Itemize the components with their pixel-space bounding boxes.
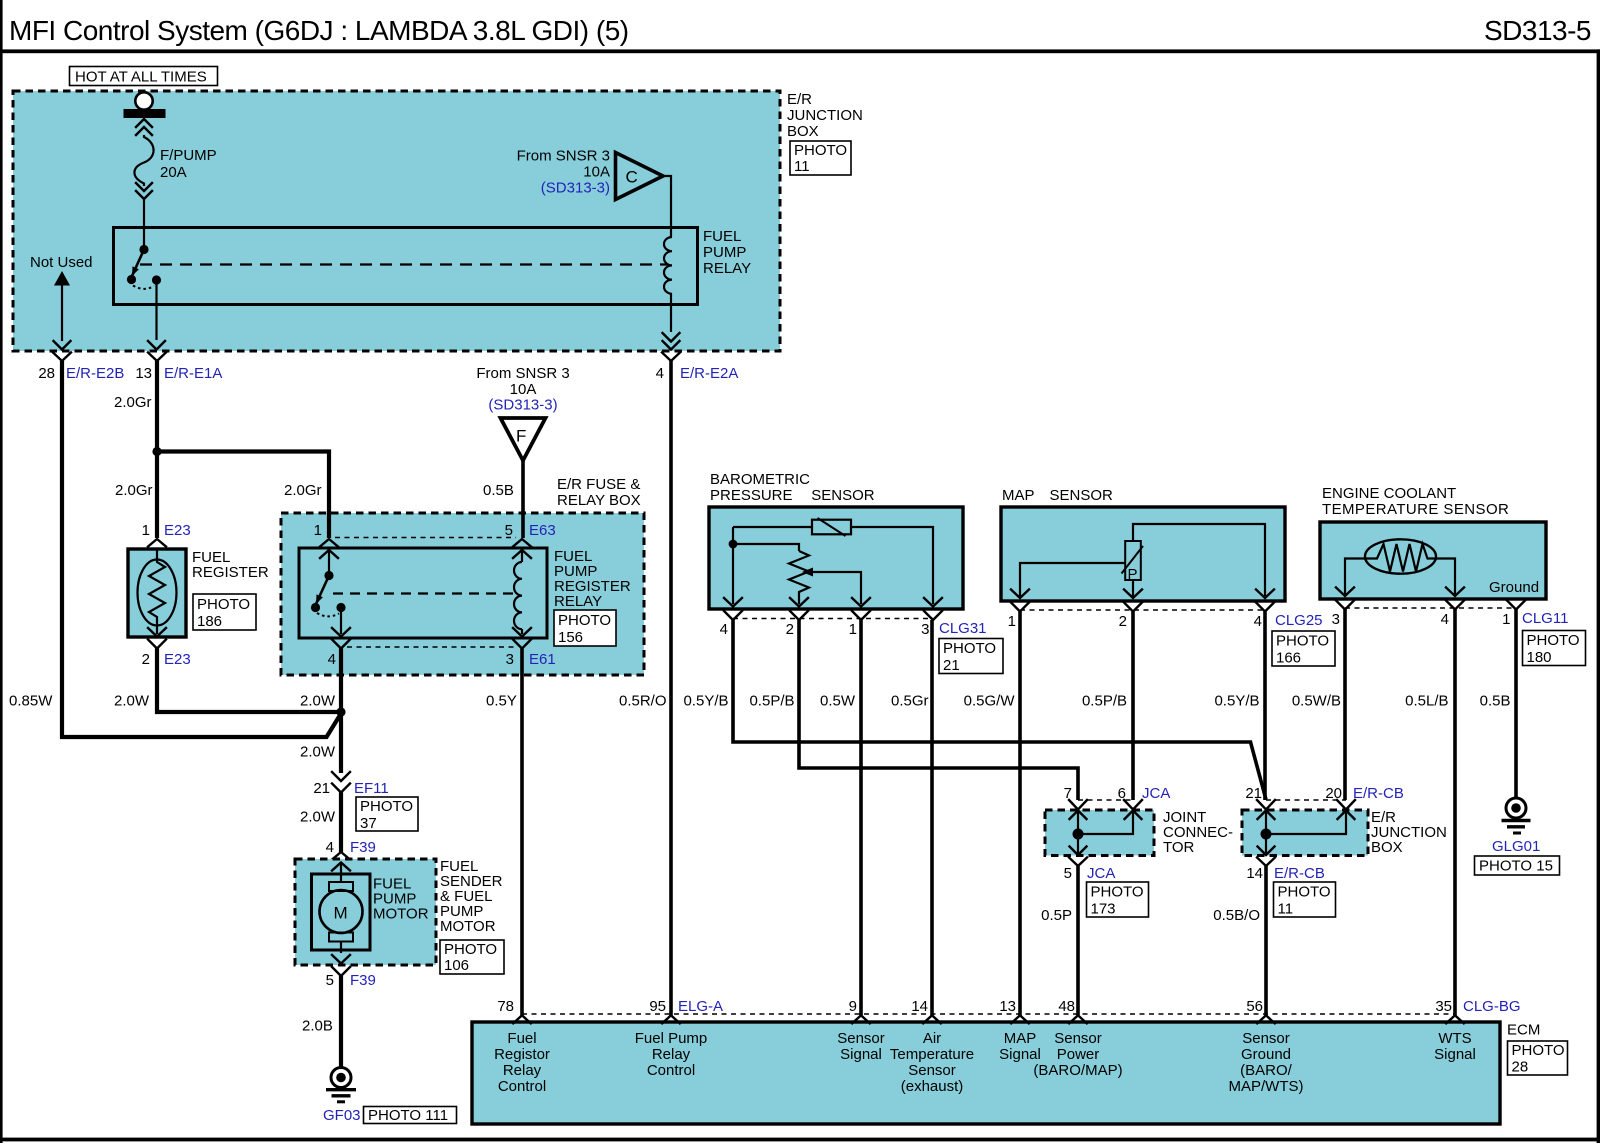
wire stubs into fuse box xyxy=(327,511,331,538)
svg-text:0.5Gr: 0.5Gr xyxy=(891,693,929,710)
svg-text:14: 14 xyxy=(911,998,928,1015)
svg-text:PHOTO 111: PHOTO 111 xyxy=(368,1107,448,1124)
svg-text:ENGINE COOLANT: ENGINE COOLANT xyxy=(1322,485,1456,502)
svg-text:20A: 20A xyxy=(160,164,187,181)
svg-text:7: 7 xyxy=(1064,785,1072,802)
svg-text:4: 4 xyxy=(656,365,664,382)
wire 0.5B/O E/R-CB 14 to ECM 56 xyxy=(1264,866,1268,1015)
svg-text:JCA: JCA xyxy=(1087,865,1115,882)
svg-text:14: 14 xyxy=(1246,865,1263,882)
svg-text:(SD313-3): (SD313-3) xyxy=(541,180,610,197)
svg-text:28: 28 xyxy=(38,365,55,382)
svg-text:21: 21 xyxy=(313,780,330,797)
wire 2.0Gr from pin 13 down with branch xyxy=(155,361,159,538)
svg-text:2.0Gr: 2.0Gr xyxy=(114,394,152,411)
svg-text:3: 3 xyxy=(921,621,929,638)
svg-text:E/R: E/R xyxy=(787,91,812,108)
pin dashed line E61 xyxy=(347,646,516,648)
svg-text:1: 1 xyxy=(142,522,150,539)
svg-text:3: 3 xyxy=(1332,611,1340,628)
svg-text:Temperature: Temperature xyxy=(890,1046,974,1063)
svg-text:Air: Air xyxy=(923,1030,941,1047)
svg-text:13: 13 xyxy=(135,365,152,382)
svg-text:PUMP: PUMP xyxy=(703,244,746,261)
svg-text:Ground: Ground xyxy=(1241,1046,1291,1063)
svg-text:0.5B: 0.5B xyxy=(483,482,514,499)
svg-text:E/R-CB: E/R-CB xyxy=(1353,785,1404,802)
svg-text:Ground: Ground xyxy=(1489,579,1539,596)
svg-text:PHOTO: PHOTO xyxy=(558,612,611,629)
svg-text:PHOTO: PHOTO xyxy=(794,142,847,159)
E/R-CB pin 14 connector xyxy=(1246,858,1335,918)
svg-text:13: 13 xyxy=(999,998,1016,1015)
svg-text:FUEL: FUEL xyxy=(703,228,741,245)
pin 5 E63 connector xyxy=(505,522,556,558)
svg-text:Sensor: Sensor xyxy=(1242,1030,1290,1047)
svg-text:11: 11 xyxy=(794,158,810,175)
connector pin 13 E/R-E1A xyxy=(135,353,222,383)
wire 0.5W baro pin 1 to ECM 9 xyxy=(859,620,863,1015)
svg-text:1: 1 xyxy=(849,621,857,638)
svg-text:1: 1 xyxy=(314,522,322,539)
wire 2.0W fuel register to junction xyxy=(157,649,341,713)
svg-text:From SNSR 3: From SNSR 3 xyxy=(517,148,610,165)
MAP internal circuit xyxy=(1011,524,1274,598)
svg-text:CLG11: CLG11 xyxy=(1522,610,1568,627)
svg-text:78: 78 xyxy=(497,998,514,1015)
wire 0.85W from pin 28 to junction xyxy=(62,361,341,737)
svg-text:56: 56 xyxy=(1246,998,1263,1015)
svg-text:37: 37 xyxy=(360,815,377,832)
svg-text:4: 4 xyxy=(720,621,728,638)
svg-text:E63: E63 xyxy=(529,522,556,539)
svg-text:Relay: Relay xyxy=(652,1046,691,1063)
svg-text:E/R-CB: E/R-CB xyxy=(1274,865,1325,882)
triangle C from SNSR 3 xyxy=(517,148,663,200)
svg-text:95: 95 xyxy=(649,998,666,1015)
svg-text:10A: 10A xyxy=(510,381,537,398)
pin 3 E61 connector xyxy=(506,640,556,669)
svg-text:CLG31: CLG31 xyxy=(939,620,987,637)
ECM pin 78 xyxy=(494,998,550,1095)
svg-text:CLG25: CLG25 xyxy=(1275,612,1323,629)
svg-text:5: 5 xyxy=(505,522,513,539)
svg-text:E23: E23 xyxy=(164,522,191,539)
svg-text:PHOTO: PHOTO xyxy=(1091,884,1144,901)
svg-text:0.5P/B: 0.5P/B xyxy=(1082,693,1127,710)
svg-text:21: 21 xyxy=(1245,785,1262,802)
svg-text:0.5R/O: 0.5R/O xyxy=(619,693,667,710)
wire 0.5B ECT pin 1 to GLG01 xyxy=(1514,610,1518,798)
fuel pump motor M1 xyxy=(312,863,429,964)
From SNSR 3 triangle F xyxy=(476,365,569,461)
svg-text:E/R-E2B: E/R-E2B xyxy=(66,365,124,382)
svg-text:Fuel Pump: Fuel Pump xyxy=(635,1030,708,1047)
ECM label xyxy=(1507,1022,1568,1076)
svg-text:48: 48 xyxy=(1058,998,1075,1015)
svg-text:5: 5 xyxy=(326,972,334,989)
svg-text:156: 156 xyxy=(558,629,583,646)
svg-text:PHOTO: PHOTO xyxy=(444,941,497,958)
svg-text:PHOTO 15: PHOTO 15 xyxy=(1479,858,1553,875)
wire 0.5L/B ECT pin 4 to ECM 35 xyxy=(1453,610,1457,1016)
svg-text:1: 1 xyxy=(1502,611,1510,628)
svg-text:PHOTO: PHOTO xyxy=(1278,884,1331,901)
svg-text:GF03: GF03 xyxy=(323,1107,361,1124)
ECM pin 14 xyxy=(890,998,974,1095)
svg-text:(exhaust): (exhaust) xyxy=(901,1078,964,1095)
svg-text:M: M xyxy=(334,904,348,923)
svg-text:0.5Y: 0.5Y xyxy=(486,693,517,710)
svg-text:E/R-E1A: E/R-E1A xyxy=(164,365,222,382)
wire 0.5G/W MAP pin 1 to ECM 13 xyxy=(1018,612,1022,1016)
svg-text:10A: 10A xyxy=(583,164,610,181)
ECM pin 48 xyxy=(1033,998,1122,1079)
svg-text:0.5Y/B: 0.5Y/B xyxy=(1214,693,1259,710)
svg-text:CLG-BG: CLG-BG xyxy=(1463,998,1521,1015)
svg-text:PHOTO: PHOTO xyxy=(1527,632,1580,649)
svg-text:2: 2 xyxy=(786,621,794,638)
baro connector CLG31 xyxy=(720,611,1003,674)
baro internal circuit xyxy=(724,518,942,607)
wire 0.5Y/B MAP pin 4 to E/R-CB 21 xyxy=(1263,612,1267,801)
svg-text:MAP: MAP xyxy=(1004,1030,1037,1047)
ground GF03 xyxy=(323,1068,457,1125)
svg-text:E/R-E2A: E/R-E2A xyxy=(680,365,738,382)
svg-text:9: 9 xyxy=(849,998,857,1015)
svg-text:BOX: BOX xyxy=(787,123,819,140)
E/R fuse & relay box xyxy=(281,476,644,675)
svg-text:F: F xyxy=(516,427,526,446)
svg-text:TEMPERATURE SENSOR: TEMPERATURE SENSOR xyxy=(1322,501,1509,518)
connector pin 4 F39 xyxy=(326,839,376,860)
svg-text:0.5Y/B: 0.5Y/B xyxy=(683,693,728,710)
svg-text:Sensor: Sensor xyxy=(837,1030,885,1047)
svg-text:11: 11 xyxy=(1278,901,1294,918)
svg-text:RELAY: RELAY xyxy=(554,593,602,610)
svg-text:Power: Power xyxy=(1057,1046,1100,1063)
svg-text:20: 20 xyxy=(1325,785,1342,802)
connector pin 4 E/R-E2A xyxy=(656,353,739,383)
pin 1 E63 connector xyxy=(314,522,338,558)
svg-text:MAP/WTS): MAP/WTS) xyxy=(1229,1078,1304,1095)
svg-text:TOR: TOR xyxy=(1163,839,1195,856)
svg-text:Sensor: Sensor xyxy=(908,1062,956,1079)
svg-text:(BARO/: (BARO/ xyxy=(1240,1062,1293,1079)
svg-text:MFI Control System (G6DJ : LAM: MFI Control System (G6DJ : LAMBDA 3.8L G… xyxy=(9,15,629,46)
svg-text:BAROMETRIC: BAROMETRIC xyxy=(710,471,810,488)
wire triangle C to relay coil xyxy=(663,176,671,237)
svg-text:SD313-5: SD313-5 xyxy=(1484,15,1591,46)
svg-text:PHOTO: PHOTO xyxy=(1276,633,1329,650)
connector EF11 pin 21 xyxy=(313,772,418,832)
JCA pin 5 connector xyxy=(1064,858,1149,918)
pin dashed line E63 xyxy=(335,537,516,539)
svg-text:2.0W: 2.0W xyxy=(300,744,336,761)
svg-text:PHOTO: PHOTO xyxy=(1512,1042,1565,1059)
svg-text:Relay: Relay xyxy=(503,1062,542,1079)
svg-text:2.0Gr: 2.0Gr xyxy=(284,482,322,499)
svg-text:(BARO/MAP): (BARO/MAP) xyxy=(1033,1062,1122,1079)
svg-text:173: 173 xyxy=(1091,901,1116,918)
svg-text:MAP SENSOR: MAP SENSOR xyxy=(1002,487,1113,504)
HOT AT ALL TIMES label xyxy=(70,67,218,86)
fuel pump relay U1 xyxy=(114,228,752,305)
svg-text:2: 2 xyxy=(1119,613,1127,630)
svg-text:28: 28 xyxy=(1512,1059,1529,1076)
svg-text:E/R FUSE &: E/R FUSE & xyxy=(557,476,640,493)
svg-text:PRESSURE SENSOR: PRESSURE SENSOR xyxy=(710,487,875,504)
svg-text:WTS: WTS xyxy=(1438,1030,1471,1047)
svg-text:2.0W: 2.0W xyxy=(300,809,336,826)
svg-text:166: 166 xyxy=(1276,650,1301,667)
fuse F/PUMP 20A xyxy=(124,92,217,246)
svg-text:0.5G/W: 0.5G/W xyxy=(964,693,1016,710)
svg-text:(SD313-3): (SD313-3) xyxy=(488,397,557,414)
wire 0.5Gr baro pin 3 to ECM 14 xyxy=(930,620,934,1015)
svg-text:2.0Gr: 2.0Gr xyxy=(115,482,153,499)
svg-text:F/PUMP: F/PUMP xyxy=(160,147,217,164)
ECM xyxy=(472,1014,1500,1124)
connector pin 28 E/R-E2B xyxy=(38,353,124,383)
engine coolant temperature sensor xyxy=(1320,485,1546,599)
fuel register FR1 xyxy=(128,522,269,668)
svg-text:ECM: ECM xyxy=(1507,1022,1540,1039)
ECT internal circuit xyxy=(1336,539,1539,596)
svg-text:MOTOR: MOTOR xyxy=(440,918,496,935)
svg-text:C: C xyxy=(626,168,638,187)
svg-text:0.5W: 0.5W xyxy=(820,693,856,710)
svg-text:E23: E23 xyxy=(164,651,191,668)
svg-text:4: 4 xyxy=(1254,613,1262,630)
wire relay contact to pin 13 xyxy=(155,280,157,340)
wire 2.0W relay pin 4 down xyxy=(339,649,343,774)
svg-text:106: 106 xyxy=(444,957,469,974)
svg-text:0.5B/O: 0.5B/O xyxy=(1213,907,1260,924)
svg-text:Registor: Registor xyxy=(494,1046,550,1063)
svg-text:180: 180 xyxy=(1527,649,1552,666)
svg-text:5: 5 xyxy=(1064,865,1072,882)
svg-text:Signal: Signal xyxy=(999,1046,1041,1063)
wire 0.5W/B ECT pin 3 to E/R-CB 20 xyxy=(1343,610,1347,801)
wire 0.5P JCA 5 to ECM 48 xyxy=(1076,866,1080,1015)
svg-text:21: 21 xyxy=(943,657,960,674)
svg-text:MOTOR: MOTOR xyxy=(373,906,429,923)
svg-text:2.0B: 2.0B xyxy=(302,1018,333,1035)
svg-text:0.5W/B: 0.5W/B xyxy=(1292,693,1341,710)
fuel pump register relay U2 xyxy=(299,548,631,646)
joint connector JCA xyxy=(1045,785,1233,856)
svg-text:Sensor: Sensor xyxy=(1054,1030,1102,1047)
svg-text:2.0W: 2.0W xyxy=(114,693,150,710)
junction node xyxy=(336,707,345,716)
E/R-CB junction box xyxy=(1242,785,1447,856)
svg-text:0.85W: 0.85W xyxy=(9,693,53,710)
svg-text:Control: Control xyxy=(647,1062,695,1079)
svg-text:1: 1 xyxy=(1008,613,1016,630)
svg-text:0.5P/B: 0.5P/B xyxy=(749,693,794,710)
svg-text:0.5P: 0.5P xyxy=(1041,907,1072,924)
svg-text:From SNSR 3: From SNSR 3 xyxy=(476,365,569,382)
svg-text:F39: F39 xyxy=(350,972,376,989)
wire 0.5P/B baro pin 2 to JCA 7 xyxy=(799,620,1078,800)
svg-text:F39: F39 xyxy=(350,839,376,856)
wire 0.5B from triangle F to relay box pin 5 xyxy=(521,461,525,539)
MAP connector CLG25 xyxy=(1008,603,1335,667)
MAP sensor xyxy=(1001,487,1285,601)
wire 2.0B to ground xyxy=(339,976,343,1067)
ECT connector CLG11 xyxy=(1332,601,1586,667)
wire 0.5P/B MAP pin 2 to JCA 6 xyxy=(1131,612,1135,801)
svg-text:Fuel: Fuel xyxy=(507,1030,536,1047)
svg-text:Control: Control xyxy=(498,1078,546,1095)
svg-text:186: 186 xyxy=(197,613,222,630)
svg-text:4: 4 xyxy=(326,839,334,856)
svg-text:GLG01: GLG01 xyxy=(1492,838,1540,855)
svg-text:ELG-A: ELG-A xyxy=(678,998,723,1015)
svg-text:PHOTO: PHOTO xyxy=(360,798,413,815)
wire 0.5Y/B baro pin 4 to E/R-CB 21 xyxy=(733,620,1266,800)
ground GLG01 xyxy=(1475,798,1560,875)
svg-text:Signal: Signal xyxy=(1434,1046,1476,1063)
svg-text:RELAY BOX: RELAY BOX xyxy=(557,492,641,509)
ECM pin 9 xyxy=(837,998,885,1063)
svg-text:REGISTER: REGISTER xyxy=(192,564,269,581)
ECM pin 35 CLG-BG xyxy=(1434,998,1520,1063)
wire 2.0W EF11 to F39 xyxy=(339,793,343,854)
Not Used arrow xyxy=(30,254,93,350)
svg-text:JUNCTION: JUNCTION xyxy=(787,107,863,124)
ECM pin 95 ELG-A xyxy=(635,998,723,1079)
svg-text:Not Used: Not Used xyxy=(30,254,93,271)
svg-text:3: 3 xyxy=(506,651,514,668)
svg-text:Signal: Signal xyxy=(840,1046,882,1063)
svg-text:BOX: BOX xyxy=(1371,839,1403,856)
pin 4 connector xyxy=(328,640,350,669)
svg-text:4: 4 xyxy=(328,651,336,668)
page frame xyxy=(0,0,3,1143)
svg-text:0.5B: 0.5B xyxy=(1480,693,1511,710)
connector pin 5 F39 xyxy=(326,967,376,989)
svg-text:JCA: JCA xyxy=(1142,785,1170,802)
E/R junction box xyxy=(13,91,780,351)
svg-text:HOT AT ALL TIMES: HOT AT ALL TIMES xyxy=(75,69,207,86)
wire 0.5Y relay pin 3 to ECM pin 78 xyxy=(520,649,524,1016)
svg-text:2.0W: 2.0W xyxy=(300,693,336,710)
svg-text:35: 35 xyxy=(1435,998,1452,1015)
svg-text:2: 2 xyxy=(142,651,150,668)
ECM pin 56 xyxy=(1229,998,1304,1095)
svg-text:EF11: EF11 xyxy=(354,780,389,797)
svg-text:6: 6 xyxy=(1118,785,1126,802)
wire 0.5R/O from E/R-E2A to ECM pin 95 xyxy=(669,361,673,1015)
svg-text:RELAY: RELAY xyxy=(703,260,751,277)
barometric pressure sensor xyxy=(709,471,963,609)
svg-text:4: 4 xyxy=(1441,611,1449,628)
svg-text:PHOTO: PHOTO xyxy=(943,640,996,657)
ECM pin 13 xyxy=(999,998,1041,1063)
svg-text:E61: E61 xyxy=(529,651,556,668)
svg-text:PHOTO: PHOTO xyxy=(197,596,250,613)
fuel sender & fuel pump motor box xyxy=(295,859,436,965)
svg-text:0.5L/B: 0.5L/B xyxy=(1405,693,1448,710)
